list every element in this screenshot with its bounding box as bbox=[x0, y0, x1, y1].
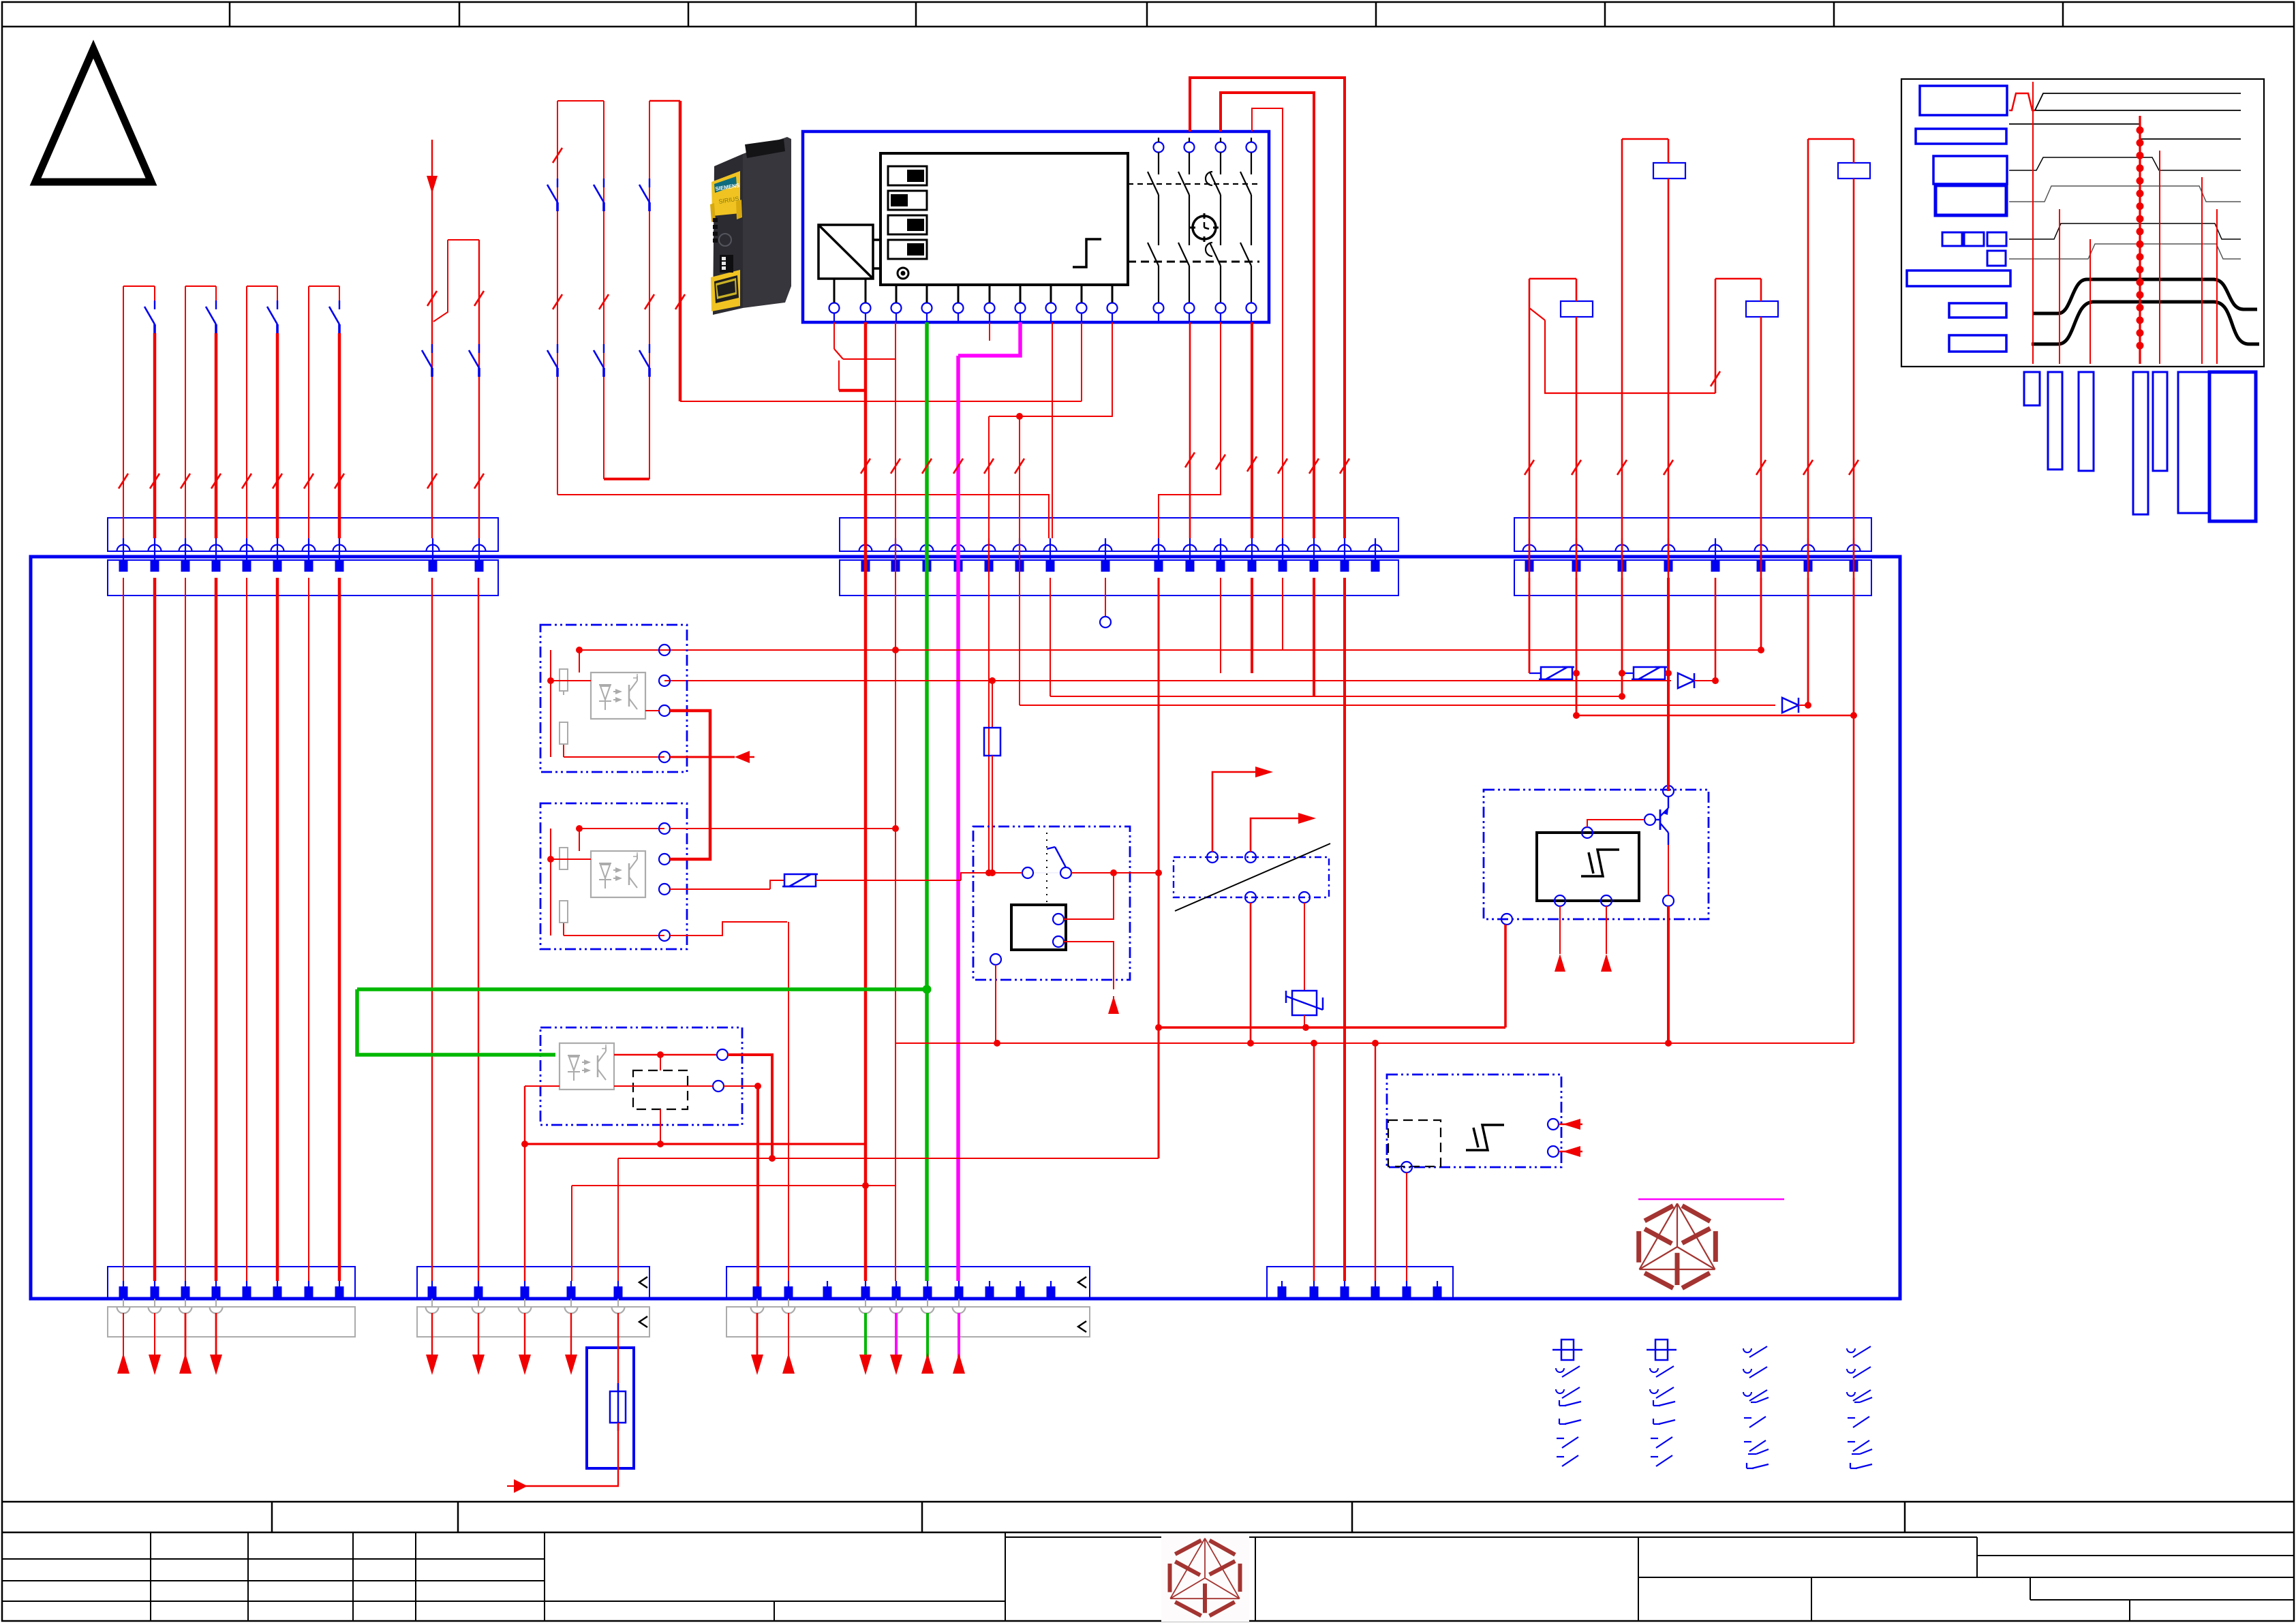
terminal bbox=[1755, 545, 1768, 552]
ruler tick bottom bbox=[271, 1502, 273, 1532]
relay contact path bbox=[1184, 142, 1195, 153]
relay K1 bottom terminal bbox=[990, 954, 1001, 965]
collector wire bbox=[1668, 845, 1669, 895]
wire opto2 c4 jog to vertical bbox=[670, 922, 787, 936]
NC contact hook bbox=[1529, 308, 1545, 320]
terminal bbox=[524, 1281, 525, 1299]
timing label boxes bbox=[1920, 86, 2007, 115]
wire bbox=[431, 578, 433, 1281]
wire with arrow bbox=[185, 1313, 187, 1374]
cable terminal bbox=[782, 1307, 795, 1314]
terminal bbox=[1709, 545, 1722, 552]
relay coil bbox=[1011, 905, 1066, 950]
schmitt outputs with arrows bbox=[1559, 906, 1561, 954]
timer contact arcs bbox=[1206, 172, 1212, 185]
power supply symbol bbox=[818, 225, 873, 279]
contact symbol bbox=[1556, 1368, 1564, 1372]
terminal bbox=[1152, 545, 1165, 552]
contact symbol bbox=[1651, 1456, 1658, 1457]
wire long lower bbox=[1313, 1043, 1315, 1281]
wire bbox=[478, 578, 479, 1281]
isolator terminals bbox=[1207, 852, 1218, 863]
cable terminal bbox=[751, 1307, 764, 1314]
relay block K1 enclosure bbox=[973, 826, 1130, 980]
terminal bbox=[117, 545, 130, 552]
block B terminals bbox=[1548, 1119, 1559, 1130]
relay output to vertical bbox=[1114, 872, 1159, 874]
opto1 terminals bbox=[659, 645, 670, 655]
wire thick bbox=[864, 322, 868, 1281]
wire opto2 c3 to varistor bbox=[670, 888, 770, 890]
wire bbox=[277, 286, 278, 300]
ruler tick top bbox=[1604, 2, 1606, 27]
wire with arrow bbox=[570, 1313, 572, 1357]
contact slash bbox=[675, 294, 685, 309]
resistor bbox=[560, 669, 568, 691]
contact output wire straight bbox=[1189, 322, 1191, 538]
ruler tick bottom bbox=[1904, 1502, 1906, 1532]
fuse bbox=[610, 1391, 626, 1423]
Siemens SIRIUS safety relay photograph bbox=[710, 137, 791, 315]
relay contact path bbox=[1246, 142, 1257, 153]
contact slashes right group bbox=[1525, 460, 1534, 475]
varistor mid bbox=[784, 874, 816, 886]
thick feed link bbox=[839, 389, 866, 392]
cable terminal bbox=[472, 1307, 485, 1314]
signal isolator block bbox=[1174, 857, 1329, 897]
varistor 1 bbox=[1529, 673, 1541, 674]
opto3 wiring bbox=[614, 1054, 717, 1056]
cable terminal bbox=[210, 1307, 223, 1314]
relay coil bbox=[1653, 163, 1685, 179]
speed curve 2 bbox=[2032, 302, 2259, 344]
schmitt terminals bbox=[1582, 827, 1593, 838]
ruler tick top bbox=[229, 2, 231, 27]
terminal strip connector box lower bbox=[1514, 560, 1871, 596]
coil loop C bbox=[1529, 278, 1576, 280]
wire thin bbox=[895, 322, 896, 1281]
wire pair loop bbox=[247, 285, 277, 287]
cable terminal bbox=[612, 1307, 625, 1314]
opto2 internal wiring bbox=[579, 828, 664, 829]
wire bbox=[154, 286, 155, 300]
function block terminal bbox=[1015, 303, 1026, 313]
contact slash bbox=[304, 474, 313, 489]
opto2 terminals bbox=[659, 823, 670, 834]
wire bbox=[246, 578, 247, 1281]
terminal bbox=[859, 545, 872, 552]
contact bbox=[649, 179, 650, 187]
terminal bbox=[210, 545, 223, 552]
terminal strip connector box upper bbox=[1514, 518, 1871, 551]
contact output wire thick bbox=[1251, 322, 1253, 538]
wire bbox=[185, 578, 186, 1281]
emitter down wire bbox=[1667, 906, 1670, 1043]
thick link opto1 to opto2 bbox=[670, 711, 710, 859]
magenta wire jog bbox=[958, 322, 1020, 356]
wire through fuse bbox=[617, 1313, 619, 1391]
bus wire H4 bbox=[618, 1158, 1159, 1159]
terminal bbox=[246, 1281, 247, 1299]
cable connector box gray bbox=[108, 1307, 355, 1337]
contact symbol bbox=[1559, 1400, 1560, 1406]
isolator diagonal bbox=[1175, 844, 1330, 911]
contact symbol bbox=[1557, 1456, 1564, 1457]
cable terminal bbox=[117, 1307, 130, 1314]
fuse enclosure bbox=[587, 1348, 634, 1468]
contact symbol bbox=[1653, 1400, 1654, 1406]
bus wire H-B bbox=[896, 1042, 1854, 1044]
coil loop A bbox=[1622, 138, 1668, 140]
long wire opto1 lower bbox=[664, 680, 1671, 681]
schmitt trigger block B enclosure bbox=[1387, 1075, 1561, 1167]
ruler tick top bbox=[688, 2, 690, 27]
terminal bbox=[478, 1281, 479, 1299]
title block grid left bbox=[150, 1532, 151, 1621]
relay coil bbox=[1838, 163, 1870, 179]
dashed actuation lines bbox=[1128, 183, 1259, 185]
terminal bbox=[154, 1281, 155, 1299]
ruler tick top bbox=[1375, 2, 1377, 27]
ruler tick top bbox=[1833, 2, 1835, 27]
contact slash bbox=[645, 294, 654, 309]
clock timer symbol bbox=[1193, 216, 1216, 239]
safety relay function block box bbox=[803, 132, 1269, 322]
wire 770 down bbox=[524, 1086, 525, 1281]
contact bbox=[339, 300, 340, 309]
wire thick bbox=[679, 101, 682, 401]
signal trace 5 bbox=[2009, 223, 2241, 239]
optocoupler input block 1 bbox=[540, 625, 687, 772]
signal trace 3 bbox=[2009, 157, 2241, 170]
wire with arrow bbox=[431, 1313, 433, 1357]
contact bbox=[277, 300, 278, 309]
wire loop K contact 2 bbox=[1221, 93, 1314, 538]
contact slash bbox=[553, 148, 562, 163]
function block terminal bbox=[1077, 303, 1087, 313]
warning triangle symbol bbox=[35, 49, 151, 182]
wire opto2 c1 bbox=[670, 828, 896, 829]
contact chain loop top bbox=[557, 100, 604, 102]
terminal bbox=[277, 1281, 278, 1299]
terminal strip connector box bbox=[417, 1267, 649, 1299]
terminal bbox=[149, 545, 162, 552]
diode 2 bbox=[1782, 698, 1798, 713]
wire loop bbox=[448, 239, 479, 241]
terminal bbox=[1281, 1281, 1283, 1299]
magenta wire bbox=[956, 356, 960, 1281]
contact slash bbox=[1340, 459, 1349, 474]
title block grid right bbox=[1255, 1537, 1256, 1621]
terminal bbox=[1308, 545, 1321, 552]
contact symbol bbox=[1847, 1369, 1855, 1373]
cable terminal bbox=[921, 1307, 934, 1314]
wire 907 down from H4 bbox=[617, 1158, 619, 1281]
relay coil bbox=[1746, 301, 1778, 317]
terminal strip connector box lower bbox=[840, 560, 1398, 596]
signal trace 1 with red pulse bbox=[2009, 93, 2035, 110]
ruler tick top bbox=[1146, 2, 1148, 27]
terminal bbox=[308, 1281, 309, 1299]
title block top line bbox=[2, 1532, 2294, 1534]
wire bbox=[246, 286, 247, 538]
dashed function box bbox=[1388, 1120, 1441, 1166]
wire 1112 down to strip bbox=[756, 1086, 759, 1286]
terminal bbox=[1616, 545, 1629, 552]
opto1 internal wiring bbox=[579, 649, 664, 651]
diode 1 bbox=[1678, 673, 1694, 688]
wire below strip bbox=[1282, 578, 1283, 650]
contact slash bbox=[1278, 459, 1287, 474]
terminal bbox=[427, 545, 440, 552]
contact symbol bbox=[1848, 1417, 1855, 1419]
wire bbox=[215, 578, 218, 1281]
relay coil bbox=[1561, 301, 1593, 317]
contact symbol bbox=[1743, 1369, 1751, 1373]
mechanical link dotted bbox=[1046, 833, 1047, 906]
terminal bbox=[1369, 545, 1382, 552]
wire bbox=[603, 101, 604, 479]
input arrows bbox=[1559, 1124, 1582, 1125]
contact slash bbox=[599, 294, 609, 309]
contact symbol bbox=[1556, 1389, 1564, 1393]
wire from terminal to chain return bbox=[1081, 322, 1082, 401]
contact slash bbox=[427, 474, 437, 489]
green wire bbox=[925, 322, 929, 1281]
schmitt function box bbox=[1537, 833, 1639, 901]
wire right strip down bbox=[1853, 578, 1855, 715]
varistor vertical bbox=[1292, 991, 1317, 1015]
wire branch bbox=[1019, 416, 1020, 705]
bus wire H5 bbox=[572, 1185, 896, 1186]
contact symbol bbox=[1559, 1419, 1560, 1424]
signal trace 4 bbox=[2009, 186, 2241, 202]
hysteresis symbol bbox=[1466, 1125, 1504, 1150]
terminal bbox=[570, 1281, 572, 1299]
contact slash bbox=[242, 474, 251, 489]
wire below strip bbox=[1251, 578, 1253, 673]
function block terminal bbox=[922, 303, 932, 313]
DIP switch bank bbox=[888, 166, 927, 185]
terminal strip connector box lower bbox=[108, 560, 498, 596]
contact bbox=[431, 344, 433, 353]
terminal bbox=[1050, 1281, 1052, 1299]
terminal bbox=[1214, 545, 1227, 552]
contact symbol bbox=[1650, 1389, 1658, 1393]
opto3 terminals bbox=[717, 1049, 728, 1060]
optocoupler block 3 (feedback) bbox=[540, 1027, 742, 1125]
fuse symbol bbox=[1561, 1340, 1574, 1360]
contact bbox=[557, 179, 558, 187]
cable terminal bbox=[859, 1307, 872, 1314]
terminal bbox=[123, 1281, 124, 1299]
terminal bbox=[958, 1281, 960, 1299]
wire with NC contact tangle bbox=[833, 322, 835, 349]
wire jog bbox=[433, 240, 448, 322]
terminal bbox=[1246, 545, 1259, 552]
top ruler band bbox=[2, 26, 2294, 28]
cable connector box gray bbox=[726, 1307, 1090, 1337]
speed curve 1 bbox=[2032, 279, 2257, 313]
wire with arrow bbox=[215, 1313, 217, 1356]
hysteresis symbol bbox=[1581, 850, 1619, 876]
terminal bbox=[756, 1281, 758, 1299]
wire jog from terminal bbox=[989, 322, 1112, 416]
series link via contact hook bbox=[1545, 320, 1715, 393]
wire below strip stubs bbox=[1529, 578, 1531, 673]
terminal bbox=[788, 1281, 789, 1299]
terminal bbox=[889, 545, 902, 552]
wire bbox=[478, 240, 480, 538]
contact slash bbox=[181, 474, 190, 489]
terminal strip connector box upper bbox=[108, 518, 498, 551]
tail wires strip3 bbox=[756, 1313, 759, 1357]
terminal bbox=[952, 545, 965, 552]
terminal bbox=[1406, 1281, 1407, 1299]
long wire to diode 2 bbox=[1020, 705, 1775, 706]
terminal bbox=[1184, 545, 1197, 552]
reset button symbol bbox=[898, 268, 908, 279]
terminal bbox=[1344, 1281, 1345, 1299]
terminal bbox=[1523, 545, 1536, 552]
isolator bottom wire 2 via varistor bbox=[1304, 903, 1305, 991]
terminal bbox=[241, 545, 254, 552]
cable terminal bbox=[179, 1307, 192, 1314]
incoming supply arrow wire bbox=[427, 176, 438, 194]
bus wire lower bbox=[1576, 715, 1854, 717]
PLC cabinet boundary box bbox=[31, 557, 1900, 1299]
cable mark arrows bbox=[639, 1277, 647, 1288]
terminal bbox=[1338, 545, 1351, 552]
opto1 output wire bbox=[645, 710, 659, 711]
terminal bbox=[1013, 545, 1026, 552]
terminal bbox=[1570, 545, 1583, 552]
wire 1157 down bbox=[788, 922, 789, 1281]
terminal strip connector box upper bbox=[840, 518, 1398, 551]
terminal bbox=[271, 545, 284, 552]
contact symbol bbox=[1653, 1419, 1654, 1424]
long wire bbox=[1050, 696, 1622, 697]
bus wire H-A thick bbox=[1159, 1026, 1505, 1029]
block A left bottom terminal bbox=[1501, 914, 1512, 925]
long wire from contact chain lower bbox=[557, 495, 1049, 538]
interrupt arrow bbox=[670, 756, 735, 758]
block B bottom terminal bbox=[1401, 1162, 1412, 1173]
wire bbox=[308, 578, 309, 1281]
terminal bbox=[1802, 545, 1815, 552]
signal trace 6 bbox=[2009, 244, 2241, 259]
coil loop D bbox=[1715, 278, 1761, 280]
function block terminal bbox=[829, 303, 840, 313]
contact symbol bbox=[1848, 1441, 1855, 1442]
wire bbox=[123, 286, 124, 538]
company logo title block bbox=[1161, 1536, 1249, 1622]
schmitt trigger block A enclosure bbox=[1484, 790, 1709, 919]
terminal strip connector box bbox=[726, 1267, 1090, 1299]
coil loop B bbox=[1808, 138, 1854, 140]
terminal bbox=[185, 1281, 186, 1299]
terminal bbox=[921, 545, 934, 552]
contact symbol bbox=[1850, 1463, 1851, 1468]
logic block outline bbox=[881, 153, 1128, 285]
terminal bbox=[1099, 545, 1112, 552]
wire pair loop bbox=[185, 285, 216, 287]
ruler tick bottom bbox=[1351, 1502, 1353, 1532]
contact symbol bbox=[1746, 1463, 1747, 1468]
cable terminal bbox=[953, 1307, 966, 1314]
green wire branch bbox=[357, 989, 555, 1055]
signal trace 2 bbox=[2009, 124, 2241, 139]
cable connector box gray bbox=[417, 1307, 649, 1337]
resistor blue vertical bbox=[992, 681, 993, 728]
function block terminal bbox=[861, 303, 871, 313]
base wire bbox=[1587, 820, 1644, 827]
optocoupler input block 2 bbox=[540, 803, 687, 949]
terminal bbox=[983, 545, 996, 552]
varistor 2 bbox=[1622, 673, 1634, 674]
wire to source arrow bbox=[514, 1423, 618, 1486]
terminal bbox=[1375, 1281, 1376, 1299]
hanging marker bars bbox=[2024, 372, 2040, 405]
contact output wire with jog bbox=[1159, 322, 1221, 538]
ruler tick top bbox=[915, 2, 917, 27]
cable terminal bbox=[149, 1307, 162, 1314]
wire with arrow bbox=[123, 1313, 124, 1374]
wire bbox=[153, 578, 157, 1281]
wire pair loop bbox=[309, 285, 339, 287]
cable terminal bbox=[890, 1307, 903, 1314]
wire bbox=[215, 286, 217, 300]
wire 838 down from H5 bbox=[571, 1186, 572, 1281]
wire with arrow bbox=[154, 1313, 155, 1356]
contact symbol bbox=[1744, 1417, 1751, 1419]
black dashed function box bbox=[633, 1070, 688, 1109]
wire to relay input bbox=[1009, 872, 1022, 874]
terminal bbox=[339, 1281, 340, 1299]
contact symbol bbox=[1651, 1438, 1658, 1439]
opto3 out 2 bbox=[614, 1085, 713, 1087]
function block terminal bbox=[891, 303, 902, 313]
magenta reference line bbox=[1638, 1199, 1784, 1201]
terminal bbox=[1313, 1281, 1315, 1299]
resistor bbox=[560, 722, 568, 744]
terminal bbox=[179, 545, 192, 552]
coil wiring bbox=[1064, 873, 1114, 919]
timing cursor lines bbox=[2032, 82, 2034, 364]
terminal bbox=[827, 1281, 828, 1299]
company logo large bbox=[1644, 1206, 1673, 1221]
wire below strip bbox=[1313, 578, 1315, 696]
isolator top wire 1 with arrow bbox=[1212, 772, 1255, 852]
contact slash bbox=[119, 474, 128, 489]
terminal bbox=[989, 1281, 990, 1299]
contact bbox=[154, 300, 155, 309]
contact symbol bbox=[1847, 1348, 1855, 1352]
wire bbox=[338, 578, 341, 1281]
isolator top wire 2 with arrow bbox=[1251, 818, 1298, 852]
terminal bbox=[431, 1281, 433, 1299]
function block terminal bbox=[1107, 303, 1118, 313]
cable terminal bbox=[565, 1307, 578, 1314]
wire bbox=[557, 101, 558, 495]
step function symbol bbox=[1073, 239, 1101, 267]
terminal bbox=[927, 1281, 928, 1299]
relay switch contact bbox=[1022, 867, 1033, 878]
long wire opto1 to coil bbox=[664, 649, 1761, 651]
terminal bbox=[617, 1281, 619, 1299]
cable terminal bbox=[426, 1307, 439, 1314]
wire loop K contact 3 bbox=[1252, 108, 1283, 538]
